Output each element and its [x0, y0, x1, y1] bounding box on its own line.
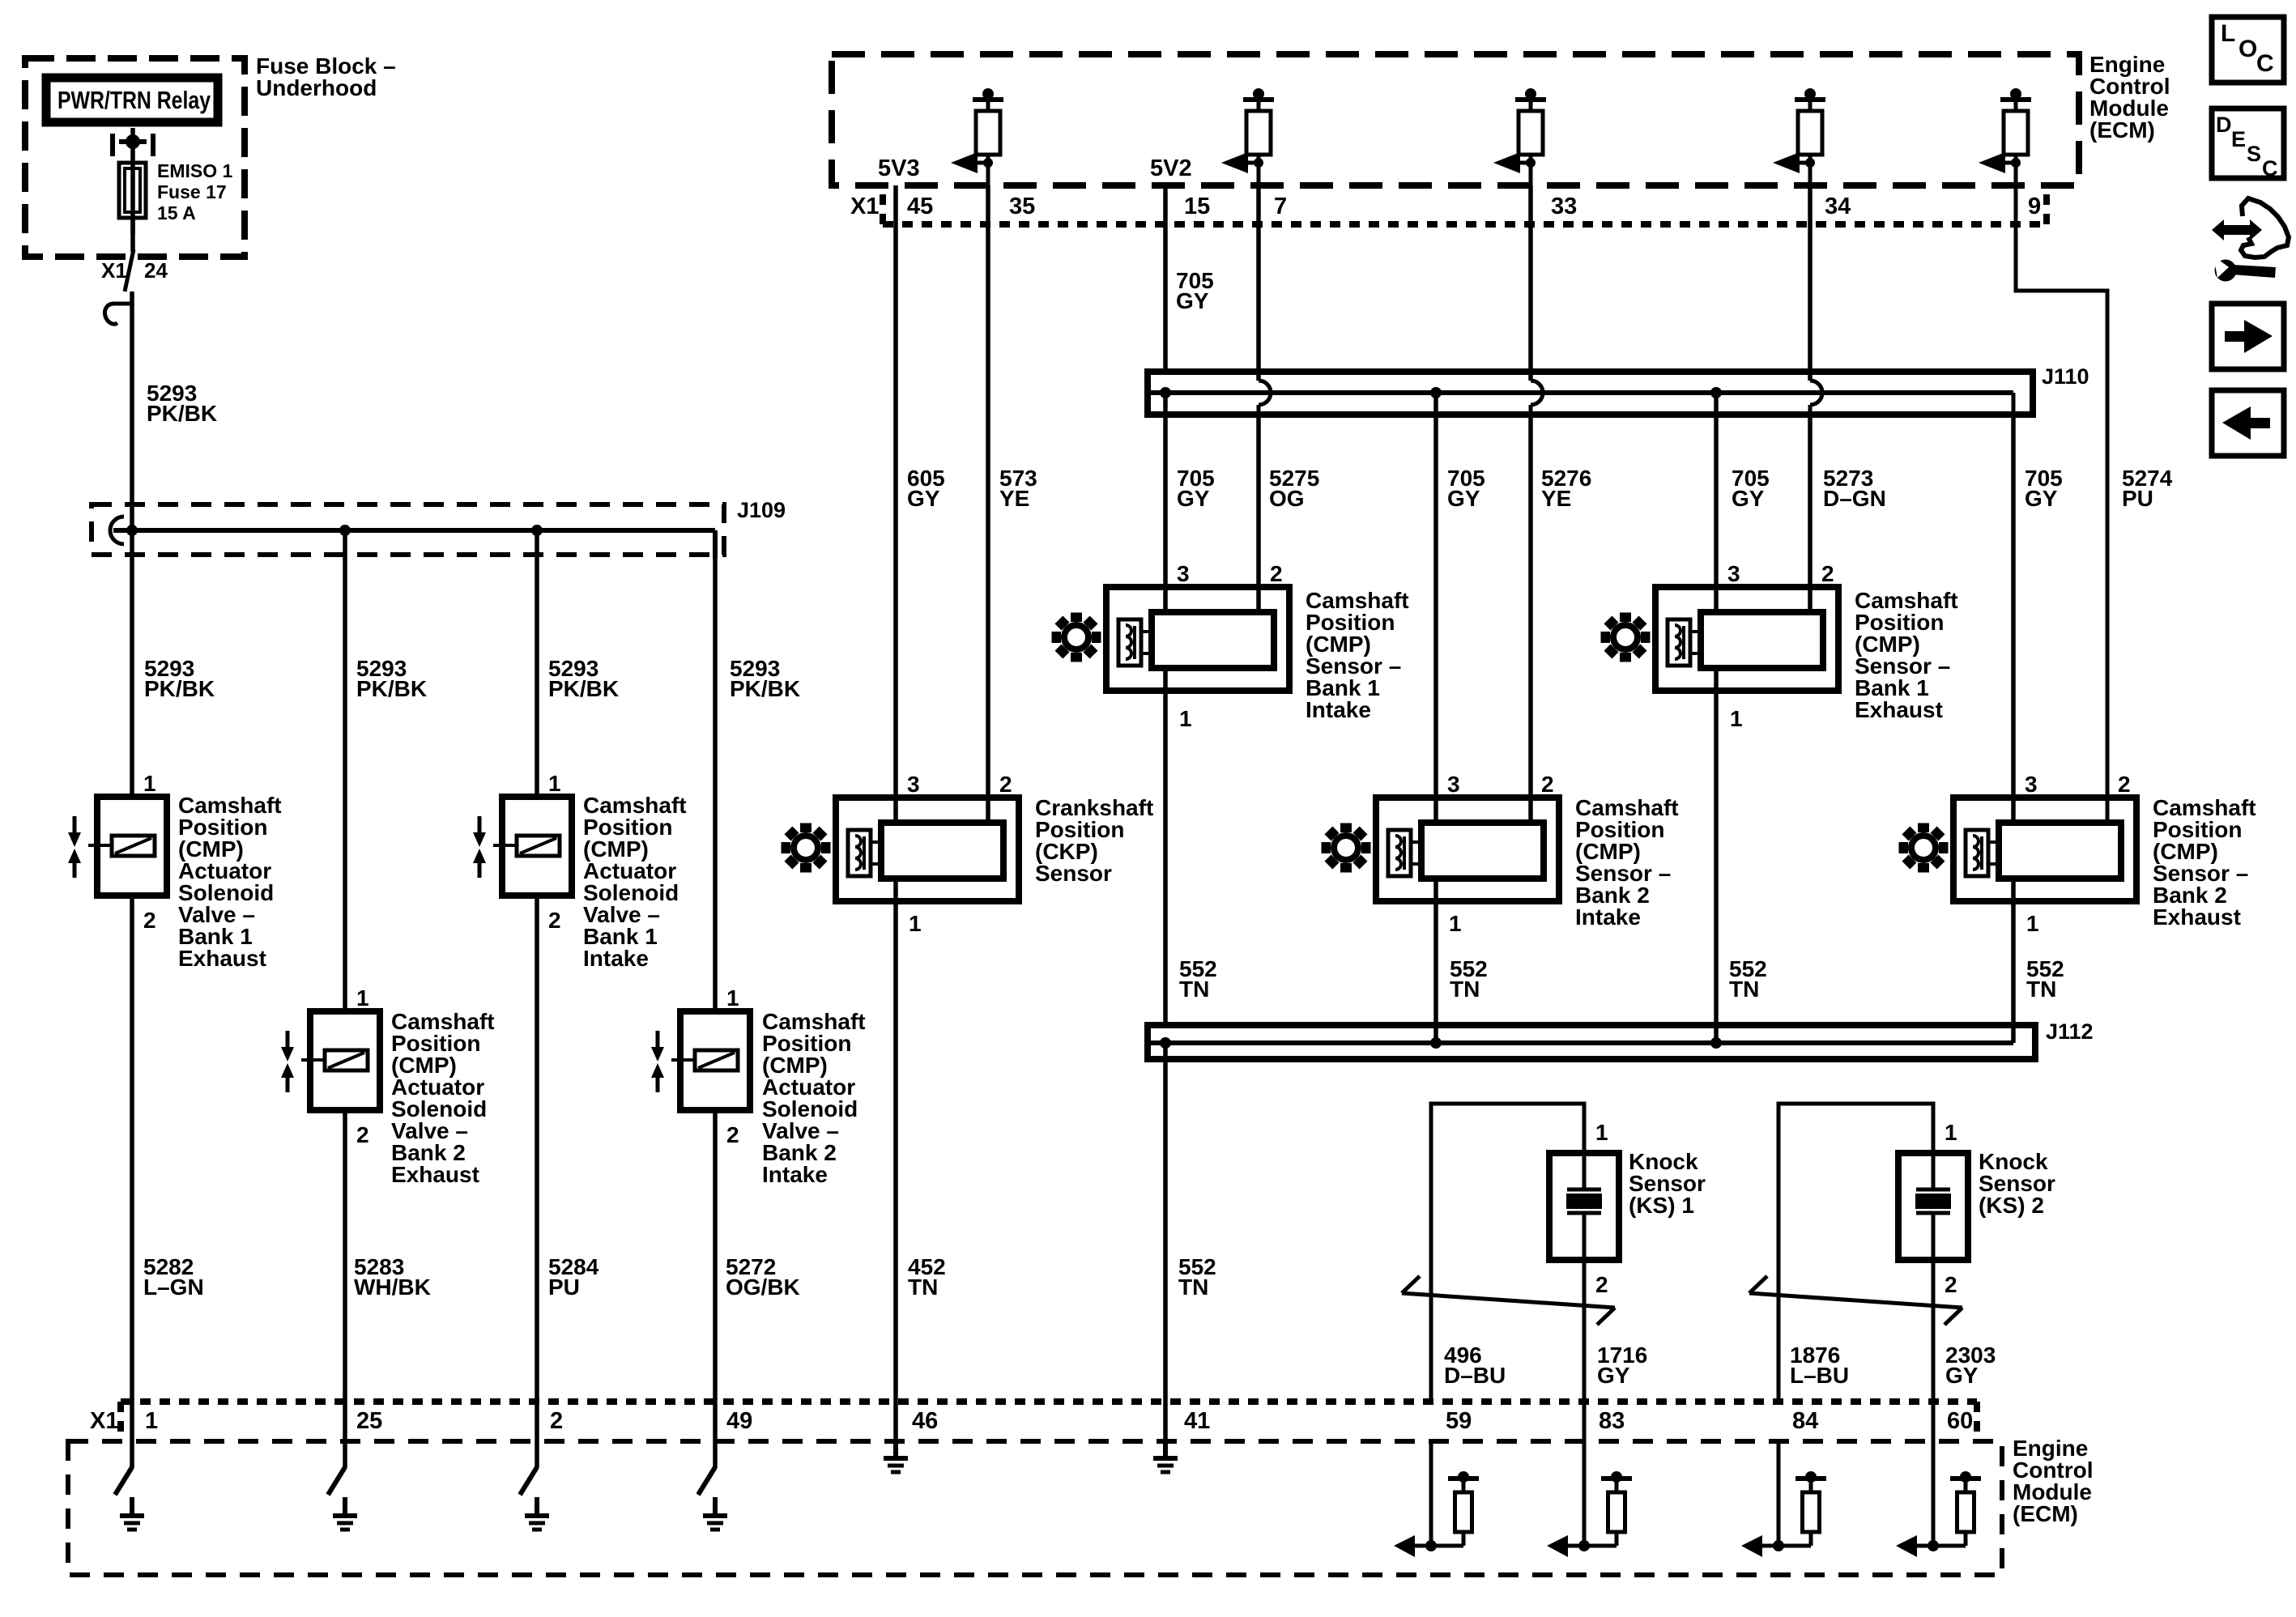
svg-text:49: 49	[726, 1408, 752, 1434]
sensor CKP crankshaft position	[836, 798, 1019, 901]
wire hop 5275 at J110	[1259, 368, 1271, 418]
svg-text:PU: PU	[548, 1274, 580, 1300]
relay output terminal bracket	[113, 134, 153, 156]
svg-text:Underhood: Underhood	[256, 75, 377, 100]
in-line connector hook	[104, 304, 132, 324]
valve CMP actuator solenoid B1 intake	[473, 797, 572, 896]
svg-text:GY: GY	[2025, 486, 2058, 511]
svg-text:D–GN: D–GN	[1823, 486, 1886, 511]
svg-text:34: 34	[1825, 194, 1851, 219]
wire 5284 PU	[535, 896, 539, 1468]
valve CMP actuator solenoid B1 exhaust	[68, 797, 167, 896]
twisted pair symbol KS2	[1749, 1276, 1962, 1325]
valve CMP actuator solenoid B2 intake	[651, 1011, 750, 1110]
wire 5283 WH/BK	[343, 1110, 347, 1468]
svg-text:Exhaust: Exhaust	[2153, 904, 2241, 930]
svg-text:2: 2	[1541, 772, 1554, 797]
label 573 YE	[999, 466, 1037, 511]
svg-text:YE: YE	[1541, 486, 1571, 511]
sensor CMP bank2 exhaust	[1953, 798, 2136, 901]
svg-text:33: 33	[1551, 194, 1577, 219]
svg-text:J110: J110	[2042, 364, 2089, 389]
wire 5275 OG pin7 upper	[1256, 185, 1261, 381]
ECM bottom pin numbers	[90, 1408, 1973, 1434]
J109 bus wire	[110, 517, 715, 559]
CMP B2 exhaust label	[2153, 795, 2256, 930]
fuse block - underhood dashed box	[25, 58, 245, 257]
svg-text:E: E	[2231, 127, 2246, 151]
svg-text:PU: PU	[2122, 486, 2153, 511]
svg-text:GY: GY	[1732, 486, 1765, 511]
icon wrench	[2213, 256, 2276, 282]
svg-text:GY: GY	[1177, 486, 1210, 511]
svg-text:TN: TN	[1178, 1274, 1208, 1300]
label 452 TN	[908, 1254, 946, 1300]
svg-text:3: 3	[1447, 772, 1460, 797]
svg-text:1: 1	[1595, 1120, 1608, 1145]
sensor CMP bank1 intake	[1106, 587, 1289, 691]
J109 junction dots	[126, 525, 543, 536]
wire 5293 to valve B2 exhaust	[343, 530, 347, 1013]
svg-text:1: 1	[356, 985, 369, 1011]
svg-text:GY: GY	[1176, 288, 1209, 313]
icon box arrow right	[2212, 304, 2284, 369]
icon box arrow left	[2212, 390, 2284, 456]
CMP B1 intake pin labels	[1177, 561, 1283, 731]
CMP B2 intake label	[1575, 795, 1679, 930]
switch and ground inside ECM pin2	[520, 1467, 549, 1530]
valve B2 exhaust label	[391, 1009, 495, 1187]
svg-text:(KS) 1: (KS) 1	[1629, 1193, 1694, 1218]
label 5275 OG	[1269, 466, 1319, 511]
wire 5273 D-GN pin34 upper	[1808, 185, 1813, 381]
label 705 GY B2exh	[2025, 466, 2063, 511]
J112 label	[2046, 1019, 2094, 1044]
label 496 D-BU	[1444, 1343, 1506, 1388]
wire 5274 PU pin9 upper with jog	[2016, 185, 2107, 823]
icon box DESC	[2212, 109, 2284, 181]
resistor ECM internal R 34 with arrow	[1773, 88, 1825, 185]
connector X1 pin 24 labels	[101, 258, 168, 283]
svg-text:1: 1	[1179, 706, 1192, 731]
J110 label	[2042, 364, 2089, 389]
CMP B1 intake label	[1306, 588, 1409, 722]
svg-text:X1: X1	[101, 258, 127, 283]
wire fuse to connector X1-24	[125, 218, 134, 291]
wire hop 5273 at J110	[1810, 368, 1822, 418]
svg-text:TN: TN	[1450, 977, 1480, 1002]
icon box LOC	[2212, 17, 2284, 83]
svg-text:24: 24	[144, 258, 168, 283]
valve B2 exhaust pin labels	[356, 985, 369, 1147]
svg-text:Sensor: Sensor	[1035, 861, 1112, 886]
svg-text:1: 1	[143, 771, 156, 796]
label 552 TN B2exh	[2026, 956, 2064, 1002]
wire 552 TN J112 to ECM pin41	[1163, 1043, 1168, 1443]
wire 552 TN B1 intake pin1 to J112	[1163, 668, 1168, 1025]
svg-text:2: 2	[1821, 561, 1834, 586]
valve CMP actuator solenoid B2 exhaust	[281, 1011, 380, 1110]
label 705 GY B2int	[1447, 466, 1485, 511]
J112 junction dots	[1160, 1037, 1722, 1049]
svg-text:1: 1	[1449, 911, 1462, 936]
svg-text:PK/BK: PK/BK	[147, 401, 217, 426]
svg-text:OG/BK: OG/BK	[726, 1274, 800, 1300]
svg-text:Exhaust: Exhaust	[178, 946, 266, 971]
svg-text:1: 1	[1730, 706, 1743, 731]
svg-text:D: D	[2216, 113, 2232, 137]
svg-text:(KS) 2: (KS) 2	[1979, 1193, 2044, 1218]
resistor ECM internal R 9 with arrow	[1979, 88, 2031, 185]
wire 5293 to valve B2 intake	[713, 557, 718, 1013]
label 5274 PU	[2122, 466, 2173, 511]
svg-text:2: 2	[1270, 561, 1283, 586]
svg-text:2: 2	[999, 772, 1012, 797]
svg-text:5V3: 5V3	[878, 155, 920, 181]
valve B2 intake pin labels	[726, 985, 739, 1147]
resistor to ground reference inside ECM pin59	[1394, 1443, 1479, 1557]
svg-text:41: 41	[1184, 1408, 1210, 1434]
J110 junction dots	[1160, 387, 1722, 398]
svg-text:(ECM): (ECM)	[2089, 117, 2155, 143]
sensor CMP bank1 exhaust	[1655, 587, 1838, 691]
valve B1 exhaust label	[178, 793, 282, 971]
svg-text:1: 1	[909, 911, 922, 936]
ECM bottom connector dotted line	[121, 1402, 1977, 1440]
resistor to ground reference inside ECM pin60	[1896, 1443, 1981, 1557]
wire 605 GY pin45 to CKP pin3	[893, 185, 898, 823]
CKP label	[1035, 795, 1153, 886]
label 552 TN B1int	[1179, 956, 1217, 1002]
wire 573 YE pin35 to CKP pin2	[986, 185, 990, 823]
svg-text:5V2: 5V2	[1150, 155, 1192, 181]
svg-text:9: 9	[2028, 194, 2041, 219]
label 1716 GY	[1597, 1343, 1647, 1388]
label 5273 D-GN	[1823, 466, 1886, 511]
wire 705 GY J110 to CMP B1 intake pin3	[1163, 393, 1168, 612]
engine control module top dashed box	[832, 54, 2079, 185]
svg-text:(ECM): (ECM)	[2013, 1501, 2078, 1526]
svg-text:GY: GY	[907, 486, 940, 511]
gear icon CMP B2 intake	[1322, 823, 1371, 873]
icon connector service double arrow	[2212, 219, 2262, 240]
label 705 GY B1int	[1177, 466, 1215, 511]
valve B1 intake label	[583, 793, 687, 971]
svg-text:YE: YE	[999, 486, 1029, 511]
KS2 label	[1979, 1149, 2055, 1218]
svg-text:3: 3	[1727, 561, 1740, 586]
svg-text:D–BU: D–BU	[1444, 1363, 1506, 1388]
svg-text:2: 2	[2118, 772, 2131, 797]
resistor ECM internal R 7 with arrow	[1221, 88, 1274, 185]
svg-text:35: 35	[1009, 194, 1035, 219]
svg-text:TN: TN	[2026, 977, 2056, 1002]
svg-text:2: 2	[726, 1122, 739, 1147]
svg-text:2: 2	[548, 908, 561, 933]
svg-text:Fuse 17: Fuse 17	[157, 181, 227, 202]
svg-text:O: O	[2238, 36, 2257, 62]
resistor to ground reference inside ECM pin84	[1741, 1443, 1826, 1557]
splice pack J109 dashed box	[92, 504, 724, 555]
labels 5V3 5V2	[878, 155, 1192, 181]
wire 5272 OG/BK	[713, 1110, 718, 1468]
svg-text:PK/BK: PK/BK	[144, 676, 215, 701]
knock sensor KS1	[1431, 1104, 1619, 1443]
svg-text:3: 3	[2025, 772, 2038, 797]
svg-text:Intake: Intake	[1575, 904, 1641, 930]
label 705 GY pin15	[1176, 268, 1214, 313]
wire 552 TN B2 exhaust pin1 to J112	[2011, 879, 2016, 1043]
svg-text:84: 84	[1792, 1408, 1818, 1434]
wire 705 GY pin15 to J110	[1163, 185, 1168, 372]
label 705 GY B1exh	[1732, 466, 1770, 511]
svg-text:2: 2	[143, 908, 156, 933]
labels 5293 PK/BK row	[144, 656, 800, 701]
svg-text:7: 7	[1274, 194, 1287, 219]
svg-text:Exhaust: Exhaust	[1855, 697, 1943, 722]
svg-text:TN: TN	[908, 1274, 938, 1300]
ground at ECM pin 46	[884, 1443, 908, 1472]
knock sensor KS2	[1778, 1104, 1968, 1443]
wire 5282 L-GN	[130, 896, 134, 1468]
label 552 TN B2int	[1450, 956, 1488, 1002]
svg-text:J112: J112	[2046, 1019, 2094, 1044]
splice J110 bar	[1148, 372, 2033, 418]
CMP B1 exhaust pin labels	[1727, 561, 1834, 731]
svg-text:2: 2	[550, 1408, 563, 1434]
svg-text:45: 45	[907, 194, 933, 219]
svg-text:Exhaust: Exhaust	[391, 1162, 479, 1187]
svg-text:15: 15	[1184, 194, 1210, 219]
wire 5293 PK/BK main feed	[130, 291, 134, 533]
twisted pair symbol KS1	[1402, 1276, 1615, 1325]
svg-text:15 A: 15 A	[157, 202, 196, 223]
svg-text:WH/BK: WH/BK	[354, 1274, 431, 1300]
resistor ECM internal R 35 with arrow	[951, 88, 1003, 185]
label 605 GY	[907, 466, 945, 511]
wire 5293 to valve B1 intake	[535, 530, 539, 798]
wire 5293 to valve B1 exhaust	[130, 533, 134, 798]
svg-text:25: 25	[356, 1408, 382, 1434]
label 2303 GY	[1945, 1343, 1996, 1388]
ground at ECM pin 41	[1153, 1443, 1178, 1472]
svg-text:59: 59	[1446, 1408, 1472, 1434]
svg-text:C: C	[2256, 50, 2274, 77]
wire 5275 OG to CMP B1 intake pin2	[1256, 418, 1261, 612]
label 1876 L-BU	[1790, 1343, 1849, 1388]
fuse block label	[256, 53, 396, 100]
wire 552 TN B2 intake pin1 to J112	[1433, 879, 1438, 1043]
ECM bottom label	[2013, 1436, 2094, 1526]
KS1 label	[1629, 1149, 1706, 1218]
svg-text:PK/BK: PK/BK	[356, 676, 427, 701]
resistor to ground reference inside ECM pin83	[1547, 1443, 1632, 1557]
svg-text:2: 2	[1945, 1272, 1957, 1297]
valve B2 intake label	[762, 1009, 866, 1187]
svg-text:PWR/TRN Relay: PWR/TRN Relay	[58, 86, 211, 114]
KS1 pin labels	[1595, 1120, 1608, 1297]
svg-text:GY: GY	[1945, 1363, 1979, 1388]
wire 552 TN B1 exhaust pin1 to J112	[1714, 668, 1719, 1043]
svg-text:L: L	[2221, 20, 2235, 47]
svg-text:PK/BK: PK/BK	[730, 676, 800, 701]
switch and ground inside ECM pin1	[115, 1467, 144, 1530]
resistor ECM internal R 33 with arrow	[1493, 88, 1546, 185]
valve B1 intake pin labels	[548, 771, 561, 933]
wire relay to fuse	[130, 128, 135, 167]
svg-text:OG: OG	[1269, 486, 1305, 511]
sensor CMP bank2 intake	[1376, 798, 1559, 901]
svg-text:46: 46	[912, 1408, 938, 1434]
svg-text:83: 83	[1599, 1408, 1625, 1434]
wire 705 GY J110 to CMP B2 exhaust pin3	[2011, 418, 2016, 823]
KS2 pin labels	[1945, 1120, 1957, 1297]
CMP B1 exhaust label	[1855, 588, 1958, 722]
gear icon CKP	[782, 823, 831, 873]
label 5276 YE	[1541, 466, 1591, 511]
svg-text:2: 2	[356, 1122, 369, 1147]
svg-text:Intake: Intake	[1306, 697, 1371, 722]
svg-text:TN: TN	[1179, 977, 1209, 1002]
wire 5276 YE to CMP B2 intake pin2	[1528, 418, 1533, 823]
svg-text:2: 2	[1595, 1272, 1608, 1297]
engine control module bottom dashed box	[68, 1441, 2002, 1575]
svg-text:60: 60	[1947, 1408, 1973, 1434]
icon connector outline shape	[2241, 198, 2289, 257]
svg-text:1: 1	[145, 1408, 158, 1434]
wire 705 GY J110 to CMP B2 intake pin3	[1433, 393, 1438, 823]
fuse label	[157, 160, 233, 223]
CKP pin labels	[907, 772, 1012, 936]
gear icon CMP B1 exhaust	[1601, 613, 1651, 662]
switch and ground inside ECM pin49	[698, 1467, 727, 1530]
ECM top pin numbers	[850, 194, 2041, 219]
wire 5273 D-GN to CMP B1 exhaust pin2	[1808, 418, 1813, 612]
svg-text:L–GN: L–GN	[143, 1274, 204, 1300]
wire 705 GY J110 to CMP B1 exhaust pin3	[1714, 393, 1719, 612]
label 552 TN pin41	[1178, 1254, 1216, 1300]
svg-text:L–BU: L–BU	[1790, 1363, 1849, 1388]
CMP B2 intake pin labels	[1447, 772, 1554, 936]
svg-text:Intake: Intake	[583, 946, 649, 971]
svg-text:X1: X1	[90, 1408, 118, 1434]
gear icon CMP B2 exhaust	[1899, 823, 1949, 873]
svg-text:TN: TN	[1729, 977, 1759, 1002]
label 5293 PK/BK upper	[147, 381, 217, 426]
svg-text:EMISO 1: EMISO 1	[157, 160, 233, 181]
svg-text:X1: X1	[850, 194, 879, 219]
svg-text:3: 3	[1177, 561, 1190, 586]
svg-text:1: 1	[1945, 1120, 1957, 1145]
svg-text:Intake: Intake	[762, 1162, 828, 1187]
ECM top connector dotted line	[883, 194, 2047, 224]
CMP B2 exhaust pin labels	[2025, 772, 2131, 936]
svg-text:C: C	[2262, 156, 2278, 181]
svg-text:3: 3	[907, 772, 920, 797]
valve B1 exhaust pin labels	[143, 771, 156, 933]
wire 5276 YE pin33 upper	[1528, 185, 1533, 381]
fuse EMISO 1 Fuse 17 15A	[119, 163, 146, 235]
gear icon CMP B1 intake	[1052, 613, 1101, 662]
switch and ground inside ECM pin25	[328, 1467, 357, 1530]
svg-text:GY: GY	[1447, 486, 1480, 511]
svg-text:PK/BK: PK/BK	[548, 676, 619, 701]
svg-text:J109: J109	[737, 498, 786, 522]
wire hop 5276 at J110	[1531, 368, 1543, 418]
ECM top label	[2089, 52, 2170, 143]
label 552 TN B1exh	[1729, 956, 1767, 1002]
wire 452 TN CKP pin1 to ECM pin46	[893, 879, 898, 1443]
svg-text:S: S	[2247, 142, 2261, 166]
J109 label	[737, 498, 786, 522]
svg-text:GY: GY	[1597, 1363, 1630, 1388]
relay PWR/TRN	[46, 78, 218, 122]
svg-text:1: 1	[548, 771, 561, 796]
svg-text:1: 1	[726, 985, 739, 1011]
labels bottom wire row left	[143, 1254, 800, 1300]
svg-text:1: 1	[2026, 911, 2039, 936]
splice J112 bar	[1148, 1025, 2035, 1059]
